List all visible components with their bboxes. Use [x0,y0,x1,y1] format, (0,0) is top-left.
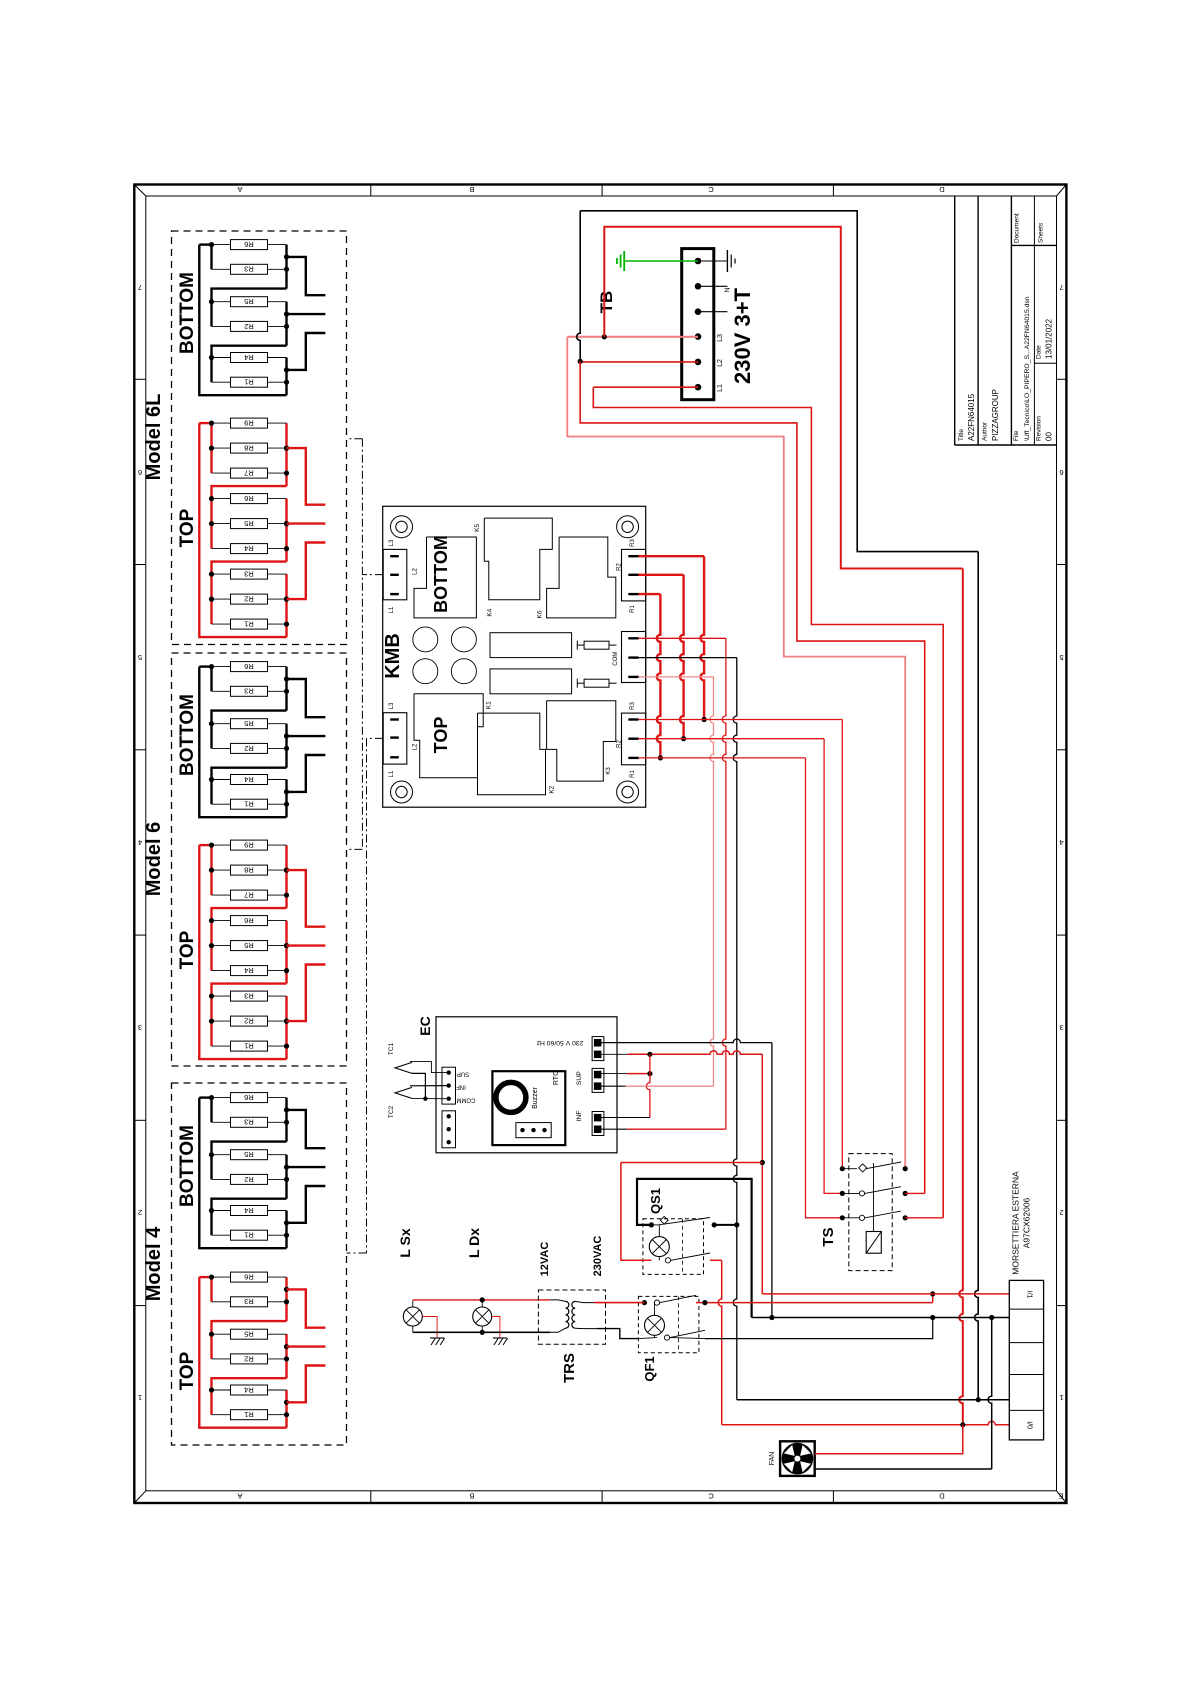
svg-text:TOP: TOP [177,930,198,969]
svg-text:Author: Author [982,421,989,441]
wire KMB bottom R3 row to TS row1 left (red) [639,719,843,721]
resistor R2 (Model 6L BOTTOM) [212,321,287,331]
svg-text:C: C [708,1492,714,1501]
svg-text:R4: R4 [244,966,254,975]
svg-text:2: 2 [1059,1208,1063,1217]
svg-text:B: B [469,185,474,194]
svg-text:QF1: QF1 [642,1356,657,1381]
TS actuator link [873,1163,875,1232]
resistor R1 (Model 6 BOTTOM) [212,799,287,809]
svg-text:R3: R3 [244,687,254,696]
TS thermal actuator [866,1232,881,1254]
resistor R4 (Model 6 TOP) [212,966,287,976]
svg-text:L2: L2 [717,359,724,367]
svg-text:R9: R9 [244,841,254,850]
svg-text:N: N [725,287,732,292]
QF1 switch row2 [664,1335,669,1340]
resistor R4 (Model 6L BOTTOM) [212,353,287,363]
svg-text:7: 7 [138,283,142,292]
resistor R1 (Model 4 BOTTOM) [212,1230,287,1240]
wire black EC/QS1 to strip cell2 [752,1317,1010,1319]
svg-text:Model 6L: Model 6L [143,394,165,481]
resistor R6 (Model 4 BOTTOM) [212,1093,287,1103]
Model 6 BOTTOM resistor bank wiring [199,667,286,818]
svg-text:R6: R6 [244,662,254,671]
resistor R1 (Model 6L BOTTOM) [212,377,287,387]
svg-text:K1: K1 [486,701,493,709]
svg-text:KMB: KMB [382,633,404,679]
FAN icon [780,1441,815,1476]
resistor R3 (Model 6L TOP) [212,569,287,579]
resistor R2 (Model 6 TOP) [212,1016,287,1026]
TS switch row 1 [840,1166,845,1171]
TS dashed box [849,1154,892,1271]
wire QS1 row1 to black riser [714,1224,737,1226]
svg-text:BOTTOM: BOTTOM [177,694,198,776]
svg-text:L3: L3 [389,539,395,546]
svg-text:TB: TB [597,291,616,314]
svg-text:K4: K4 [487,608,494,616]
resistor R1 (Model 6L TOP) [212,619,287,629]
thermocouple TC2 [395,1087,412,1098]
svg-text:230 V 50/60 Hz: 230 V 50/60 Hz [536,1039,583,1046]
svg-text:INF: INF [456,1083,466,1089]
svg-text:R2: R2 [244,322,254,331]
TB terminal dot 362 [695,359,702,366]
svg-text:13/01/2022: 13/01/2022 [1045,318,1054,359]
svg-text:3: 3 [1059,1023,1063,1032]
EC terminal INF [592,1112,604,1136]
resistor R4 (Model 4 BOTTOM) [212,1206,287,1216]
svg-text:4: 4 [138,838,142,847]
QS1 dashed box [643,1219,704,1275]
svg-text:K3: K3 [606,767,612,775]
svg-text:R4: R4 [244,775,254,784]
svg-text:2: 2 [138,1208,142,1217]
svg-text:\Uff_Tecnico\LO_PIPERO_S...A22: \Uff_Tecnico\LO_PIPERO_S...A22FN64015.ds… [1024,296,1031,441]
svg-text:C: C [708,185,714,194]
svg-text:R1: R1 [244,620,254,629]
resistor R6 (Model 6L BOTTOM) [212,240,287,250]
wire branch to QF1 row2 right [930,1315,935,1320]
svg-text:L2: L2 [413,568,419,575]
KMB resistor symbol 1 [576,641,578,650]
KMB mounting hole at 628,792 [617,781,639,803]
wire L3 net down-left [567,337,905,1169]
resistor R8 (Model 6L TOP) [212,443,287,453]
svg-text:I/1: I/1 [1026,1291,1033,1299]
svg-text:R1: R1 [244,1410,254,1419]
svg-text:A: A [237,185,242,194]
wire KMB COM pin3 to EC SUP (light red) [639,676,714,678]
svg-text:R3: R3 [244,1118,254,1127]
QS1 black feed loop [637,1179,752,1318]
svg-text:R6: R6 [244,1093,254,1102]
KMB connector BOTTOM L1-L3 [383,549,407,599]
TB terminal dot 337 [695,333,702,340]
wire TB L2 (red) [580,361,698,363]
svg-text:R8: R8 [244,866,254,875]
link wire KMB TOP connector to model boxes (dash-dot) [367,737,384,739]
svg-text:K6: K6 [536,610,543,618]
resistor R8 (Model 6 TOP) [212,865,287,875]
svg-text:BOTTOM: BOTTOM [431,535,451,613]
wire lamp red bus [413,1299,550,1301]
wire black TB riser [577,211,581,362]
svg-text:R3: R3 [244,570,254,579]
svg-text:BOTTOM: BOTTOM [177,1125,198,1207]
wire KMB R2 top to R2 bottom (thick red) [639,574,684,576]
KMB LED at 425,639 [413,627,438,652]
TB terminal dot 261 [695,258,702,265]
svg-text:FAN: FAN [769,1452,776,1466]
border frame outer [134,185,1066,1504]
resistor R9 (Model 6L TOP) [212,418,287,428]
KMB resistor symbol 2 [576,679,578,688]
wire red vertical to INF pin1 [646,1054,650,1117]
svg-text:R1: R1 [630,770,636,778]
wire black N to strip cell4 [737,1399,1010,1401]
KMB mounting hole at 402,792 [391,781,413,803]
KMB connector TOP L1-L3 [383,713,407,764]
resistor R4 (Model 4 TOP) [212,1385,287,1395]
wire EC SUP pin2 to KMB COM pin3 [601,1085,625,1087]
svg-text:R4: R4 [244,1385,254,1394]
svg-text:Model 6: Model 6 [143,822,165,896]
resistor R7 (Model 6L TOP) [212,468,287,478]
svg-text:6: 6 [1059,468,1063,477]
Model 6 TOP resistor bank wiring [199,845,286,1059]
resistor R2 (Model 4 TOP) [212,1354,287,1364]
svg-text:R5: R5 [244,719,254,728]
Model 6L BOTTOM resistor bank wiring [199,245,286,396]
wire QS1 feed red [621,1162,762,1164]
svg-text:L2: L2 [413,743,419,750]
ruler ticks top and bottom [370,185,372,197]
TS switch row 2 [840,1191,845,1196]
QF1 switch row1 [642,1300,647,1305]
KMB board outline [383,506,646,807]
wire FAN black return [815,1468,992,1470]
svg-text:INF: INF [576,1111,583,1122]
buzzer [496,1082,526,1112]
KMB relay coil box 1 [490,633,572,658]
svg-text:R2: R2 [244,744,254,753]
relay K3 [547,701,616,781]
ground symbol (L Sx) [422,1317,437,1339]
relay K6 [547,537,616,618]
title block [954,196,956,445]
svg-text:R2: R2 [244,1175,254,1184]
svg-text:A: A [237,1492,242,1501]
svg-text:L1: L1 [717,384,724,392]
svg-text:L1: L1 [389,606,395,613]
resistor R6 (Model 4 TOP) [212,1272,287,1282]
svg-text:R5: R5 [244,1330,254,1339]
svg-text:R5: R5 [244,519,254,528]
svg-text:L1: L1 [389,770,395,777]
wire KMB COM pin1 to EC INF (red) [639,637,726,639]
KMB LED at 464,639 [451,627,476,652]
svg-text:Title: Title [958,429,965,441]
svg-text:D: D [939,1492,945,1501]
svg-text:1: 1 [1059,1393,1063,1402]
svg-text:R5: R5 [244,297,254,306]
svg-text:R4: R4 [244,544,254,553]
Model 6 dashed box [172,653,347,1066]
svg-text:R2: R2 [244,1354,254,1363]
lamp L Dx [473,1307,492,1326]
wire QF1 row1 output (line A red) [696,1302,933,1304]
svg-text:I/0: I/0 [1026,1421,1033,1429]
svg-text:Sheets: Sheets [1038,222,1045,243]
terminal strip MORSETTIERA ESTERNA [1009,1280,1043,1440]
QF1 lamp [654,1303,656,1316]
svg-text:TC2: TC2 [388,1105,395,1118]
svg-text:B: B [469,1492,474,1501]
relay K5 [484,518,552,600]
svg-text:R5: R5 [244,1150,254,1159]
wire TRS secondary black to QF1 row2 [597,1329,638,1339]
ground symbol (green earth at TB) [624,260,698,262]
KMB relay coil box 2 [490,669,572,694]
resistor R3 (Model 4 BOTTOM) [212,1117,287,1127]
svg-text:R6: R6 [244,494,254,503]
Model 6L dashed box [172,231,347,645]
KMB connector COM [622,632,646,683]
resistor R4 (Model 6 BOTTOM) [212,775,287,785]
EC terminal SUP [592,1068,604,1092]
svg-text:K5: K5 [474,524,481,532]
wire red from TB L3 junction up and over to right [604,227,955,569]
svg-text:R5: R5 [244,941,254,950]
relay K2 [478,713,546,795]
TB terminal dot 286 [695,283,702,290]
wire red to strip I1 [762,1293,1009,1295]
QS1 switch row2 [665,1258,670,1263]
QS1 lamp [658,1225,660,1237]
Model 4 BOTTOM resistor bank wiring [199,1098,286,1249]
resistor R3 (Model 6L BOTTOM) [212,264,287,274]
wire EC 230V pin2 (red) [601,1053,627,1055]
resistor R6 (Model 6 BOTTOM) [212,662,287,672]
EC left connector SUP/INF/COMM [442,1067,456,1104]
svg-text:R6: R6 [244,240,254,249]
TB pin stubs N and pin3 [698,285,727,287]
wire L1 net down [593,387,943,1218]
wire L2 net down [580,361,925,1193]
svg-text:R2: R2 [244,1017,254,1026]
svg-text:R9: R9 [244,419,254,428]
svg-text:K2: K2 [548,785,555,793]
Model 6L TOP resistor bank wiring [199,423,286,637]
svg-text:TC1: TC1 [388,1042,395,1055]
svg-text:R2: R2 [616,563,622,571]
KMB mounting hole at 628,527 [617,516,639,538]
resistor R5 (Model 4 TOP) [212,1329,287,1339]
wire EC 230V pin1 (black) to right riser [601,1039,772,1043]
svg-text:R6: R6 [244,916,254,925]
svg-text:5: 5 [138,653,142,662]
svg-text:L Sx: L Sx [397,1228,413,1258]
TB terminal block [682,249,714,400]
svg-text:RTC: RTC [553,1071,560,1085]
svg-text:R1: R1 [244,800,254,809]
wire KMB bottom R1 row to TS row3 left (red) [639,757,806,759]
KMB connector R3 R2 R1 (TOP) [622,713,646,765]
ground symbol (L Dx) [492,1317,500,1339]
svg-text:00: 00 [1045,432,1054,441]
resistor R5 (Model 4 BOTTOM) [212,1150,287,1160]
resistor R5 (Model 6 TOP) [212,941,287,951]
resistor R5 (Model 6L BOTTOM) [212,297,287,307]
lamp L Sx [403,1307,422,1326]
wire EC INF pin2 to KMB COM pin1 [601,1128,627,1130]
svg-text:R3: R3 [630,702,636,710]
resistor R9 (Model 6 TOP) [212,840,287,850]
svg-text:Document: Document [1014,213,1021,243]
wire FAN red [815,1425,963,1454]
svg-text:File: File [1013,430,1020,441]
svg-text:R1: R1 [630,605,636,613]
svg-text:PIZZAGROUP: PIZZAGROUP [991,389,1000,441]
resistor R2 (Model 4 BOTTOM) [212,1174,287,1184]
svg-text:R6: R6 [244,1273,254,1282]
wire KMB bottom R2 row to TS row2 left (red) [639,738,825,740]
svg-text:R7: R7 [244,891,254,900]
svg-text:R3: R3 [244,1297,254,1306]
resistor R2 (Model 6 BOTTOM) [212,743,287,753]
wire TS row3 right to riser [905,1217,943,1219]
svg-text:R4: R4 [244,1206,254,1215]
TS switch row 3 [840,1215,845,1220]
svg-text:R3: R3 [244,265,254,274]
svg-text:BOTTOM: BOTTOM [177,272,198,354]
resistor R6 (Model 6 TOP) [212,916,287,926]
wire QS1 row2 red out [710,1259,722,1261]
corner marks [134,185,146,197]
svg-text:12VAC: 12VAC [539,1242,551,1277]
svg-text:TS: TS [820,1227,837,1246]
svg-text:R1: R1 [244,1231,254,1240]
QS1 switch row1 [649,1222,654,1227]
svg-text:TOP: TOP [177,1351,198,1390]
Model 4 dashed box [172,1083,347,1445]
svg-text:COM: COM [613,652,619,666]
svg-text:TOP: TOP [177,508,198,547]
thermocouple TC1 [395,1062,412,1073]
TB terminal dot 387 [695,384,702,391]
svg-text:R3: R3 [630,539,636,547]
resistor R1 (Model 6 TOP) [212,1041,287,1051]
EC box [436,1017,617,1153]
svg-text:L3: L3 [717,334,724,342]
KMB mounting hole at 402,527 [391,516,413,538]
svg-text:TOP: TOP [431,717,451,754]
resistor R7 (Model 6 TOP) [212,890,287,900]
svg-text:QS1: QS1 [648,1188,663,1214]
RTC box [492,1071,565,1145]
resistor R3 (Model 6 BOTTOM) [212,686,287,696]
svg-text:SUP: SUP [457,1070,469,1076]
svg-text:R8: R8 [244,444,254,453]
svg-text:E: E [1058,1492,1063,1501]
resistor R2 (Model 6L TOP) [212,594,287,604]
svg-text:230VAC: 230VAC [592,1236,604,1277]
svg-text:A97CX62006: A97CX62006 [1022,1197,1032,1248]
transformer secondary coil [572,1301,575,1328]
svg-text:L3: L3 [389,702,395,709]
wire red to strip I0 [722,1421,1010,1425]
wire KMB R3 top to R3 bottom (thick red) [639,555,705,557]
wire lamp black bus [413,1331,550,1333]
svg-text:6: 6 [138,468,142,477]
svg-text:R3: R3 [244,992,254,1001]
link wire KMB BOTTOM connector to model boxes (dash-dot) [362,574,383,576]
svg-text:R1: R1 [244,1042,254,1051]
svg-text:TRS: TRS [561,1353,578,1383]
svg-text:R7: R7 [244,469,254,478]
svg-text:R1: R1 [244,378,254,387]
RTC connector [516,1123,551,1138]
QF1 dashed box [638,1296,699,1352]
svg-text:R2: R2 [244,595,254,604]
wire TRS secondary red to QF1 [594,1302,644,1304]
svg-text:COMM: COMM [457,1096,476,1102]
Model 4 TOP resistor bank wiring [199,1277,286,1428]
EC lower connector [442,1111,456,1148]
svg-text:7: 7 [1059,283,1063,292]
resistor R1 (Model 4 TOP) [212,1410,287,1420]
resistor R3 (Model 4 TOP) [212,1297,287,1307]
wire EC INF pin1 lead [601,1117,650,1119]
svg-text:R4: R4 [244,353,254,362]
svg-text:4: 4 [1059,838,1063,847]
svg-text:L Dx: L Dx [466,1228,482,1258]
KMB LED at 425,671 [413,659,438,684]
svg-text:3: 3 [138,1023,142,1032]
svg-text:Revision: Revision [1036,416,1043,441]
KMB connector R3 R2 R1 (BOTTOM) [622,549,646,601]
relay K1 [414,694,483,778]
svg-text:5: 5 [1059,653,1063,662]
svg-text:1: 1 [138,1393,142,1402]
resistor R6 (Model 6L TOP) [212,494,287,504]
resistor R4 (Model 6L TOP) [212,544,287,554]
wire TS row2 right to riser [905,1192,925,1194]
wire KMB COM pin2 to QS1 (black) [639,657,737,659]
svg-text:230V 3+T: 230V 3+T [730,287,755,384]
transformer primary coil [566,1301,569,1328]
TRS dashed box [538,1290,605,1344]
svg-text:Date: Date [1036,345,1043,359]
resistor R3 (Model 6 TOP) [212,991,287,1001]
TB terminal dot 312 [695,308,702,315]
relay K4 [414,537,476,618]
ground symbol (earth right of TB) [698,260,727,262]
svg-text:Buzzer: Buzzer [532,1086,539,1108]
border frame inner [146,196,1057,1491]
wire KMB R1 top to R1 bottom (thick red) [639,593,661,595]
svg-text:EC: EC [417,1016,433,1035]
KMB LED at 464,671 [451,659,476,684]
wire EC SUP pin1 (red) [601,1073,627,1075]
svg-text:D: D [939,185,945,194]
svg-text:MORSETTIERA ESTERNA: MORSETTIERA ESTERNA [1011,1171,1021,1275]
svg-text:SUP: SUP [576,1071,583,1085]
resistor R5 (Model 6 BOTTOM) [212,719,287,729]
EC terminal 230V [592,1037,604,1061]
